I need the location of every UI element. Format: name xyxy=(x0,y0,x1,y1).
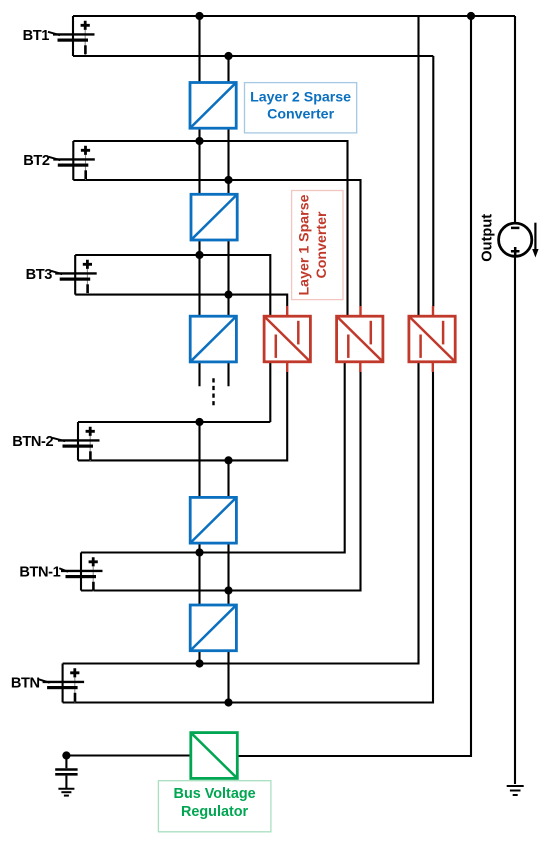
layer-1 converter V2 (BT2 to BTN-1) xyxy=(337,316,383,362)
node BTN-2- junction xyxy=(224,456,232,464)
svg-text:Output: Output xyxy=(479,214,495,262)
battery BTN-1 xyxy=(59,557,102,591)
wire BT3 bottom rail xyxy=(75,295,287,307)
wire BT2 bottom rail xyxy=(73,180,360,307)
wire BTN-1 bracket xyxy=(80,553,82,591)
label box Layer 2 Sparse Converter xyxy=(245,83,357,133)
wire BT1 bracket xyxy=(72,16,74,56)
layer-2 converter U1 (BT1-BT2) xyxy=(190,83,236,129)
node BTN-2+ junction xyxy=(195,418,203,426)
node ellipsis dotted continuation xyxy=(212,378,214,409)
current source arrow xyxy=(532,223,538,258)
wire layer-2 column minus upper section xyxy=(227,56,229,386)
wire layer-2 column minus lower section xyxy=(227,460,229,702)
wire BT2 bracket xyxy=(72,141,74,180)
layer-2 converter U2 (BT2-BT3) xyxy=(191,194,237,240)
svg-text:BT1: BT1 xyxy=(23,28,50,44)
ground right xyxy=(507,786,524,795)
layer-2 converter U3 (BT3 chain) xyxy=(190,316,236,362)
node BTN-1- junction xyxy=(224,586,232,594)
layer-2 converter U4 (BTN-2 to BTN-1) xyxy=(190,497,236,543)
svg-text:Regulator: Regulator xyxy=(181,804,249,820)
svg-text:Converter: Converter xyxy=(314,211,330,278)
wire BT3 top rail and layer1 converter1 left lead xyxy=(75,255,270,422)
label box Layer 1 Sparse Converter xyxy=(292,191,343,300)
wire BTN bottom rail and layer1 converter3 right lead lower xyxy=(63,372,433,703)
layer-1 converter V1 (BT3 to BTN-2) xyxy=(264,316,310,362)
layer1 converter3 red terminal stubs xyxy=(432,306,435,372)
svg-text:Layer 1 Sparse: Layer 1 Sparse xyxy=(297,194,313,295)
node BTN- junction xyxy=(224,698,232,706)
layer1 converter1 red terminal stubs xyxy=(286,306,288,372)
node BTN-1+ junction xyxy=(195,548,203,556)
wire layer1 converter3 right lead upper xyxy=(432,56,434,307)
wire BTN bracket xyxy=(62,664,64,703)
svg-text:BT3: BT3 xyxy=(26,267,53,283)
current source Output xyxy=(499,223,532,256)
node BT3- junction xyxy=(224,291,232,299)
label box Bus Voltage Regulator xyxy=(158,781,271,832)
wire output right column xyxy=(514,16,516,784)
wire BT1 top rail to output column xyxy=(73,15,515,17)
battery BTN xyxy=(39,668,84,702)
wire bus regulator output column xyxy=(237,16,471,756)
layer-2 converter U5 (BTN-1 to BTN) xyxy=(190,605,236,651)
battery BTN-2 xyxy=(52,427,99,461)
wire bus regulator input from capacitor node xyxy=(66,754,190,756)
node BT1- junction xyxy=(224,52,232,60)
svg-text:Converter: Converter xyxy=(267,107,334,123)
wire BTN-2 bottom rail xyxy=(78,372,287,461)
wire BT3 bracket xyxy=(74,255,76,295)
wire BTN-2 bracket xyxy=(77,422,79,460)
svg-text:Layer 2 Sparse: Layer 2 Sparse xyxy=(250,89,351,105)
node BT1+ junction xyxy=(195,12,203,20)
wire BTN-2 top rail xyxy=(78,421,270,423)
battery BT2 xyxy=(49,146,95,180)
node BTN+ junction xyxy=(195,659,203,667)
wire layer-2 column plus lower section xyxy=(198,422,200,664)
wire layer1 converter3 left lead upper xyxy=(417,16,419,320)
svg-text:BT2: BT2 xyxy=(23,153,50,169)
battery BT1 xyxy=(48,21,95,55)
svg-text:BTN: BTN xyxy=(11,676,40,692)
wire BTN-1 bottom rail and layer1 converter2 right lead lower xyxy=(81,372,361,591)
ground left xyxy=(58,789,74,796)
layer1 converter2 red terminal stubs xyxy=(359,306,362,372)
wire BTN-1 top rail and layer1 converter2 left lead lower xyxy=(81,358,345,553)
wire BT1 bottom rail xyxy=(73,55,433,57)
svg-text:BTN-2: BTN-2 xyxy=(12,434,53,450)
battery BT3 xyxy=(51,260,97,294)
node output top junction xyxy=(467,12,475,20)
bus voltage regulator converter U6 xyxy=(191,733,238,779)
capacitor C1 xyxy=(55,756,77,789)
wire layer-2 column plus upper section xyxy=(198,16,200,386)
node regulator input junction xyxy=(62,751,70,759)
node BT3+ junction xyxy=(195,251,203,259)
layer-1 converter V3 (BT1 to BTN) xyxy=(409,316,455,362)
node BT2- junction xyxy=(224,176,232,184)
wire BTN top rail and layer1 converter3 left lead lower xyxy=(63,358,419,664)
node BT2+ junction xyxy=(195,137,203,145)
wire BT2 top rail xyxy=(73,141,347,320)
svg-text:BTN-1: BTN-1 xyxy=(19,565,60,581)
svg-text:Bus Voltage: Bus Voltage xyxy=(174,786,256,802)
